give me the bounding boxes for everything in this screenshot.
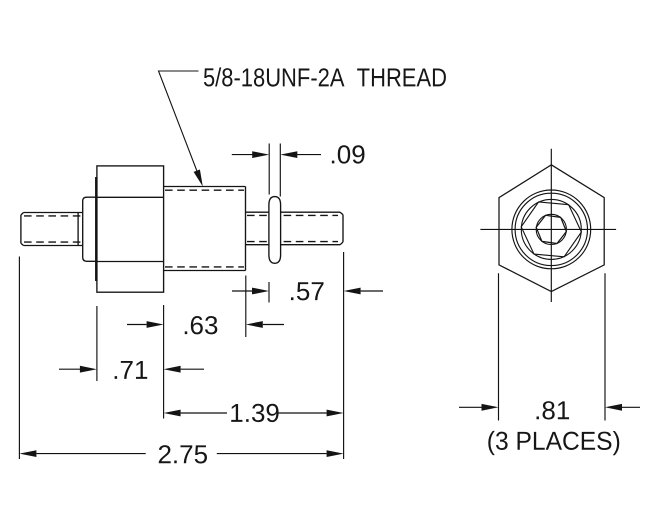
svg-text:.57: .57 — [289, 276, 325, 306]
dim line .71 right segment — [181, 368, 204, 370]
horizontal centerline — [480, 228, 616, 230]
dim line .09 right segment — [297, 154, 321, 156]
dim line .71 left segment — [59, 368, 80, 370]
stud minor hex — [536, 215, 566, 243]
arrow 2.75 right — [327, 450, 344, 457]
arrow 2.75 left — [19, 450, 36, 457]
dim line .57 left segment — [232, 290, 252, 292]
svg-text:(3 PLACES): (3 PLACES) — [487, 426, 621, 456]
dim line .09 left segment — [232, 154, 253, 156]
left stud — [21, 213, 83, 246]
svg-text:.71: .71 — [112, 355, 148, 385]
extension line hex-left (.71) — [96, 306, 98, 381]
dim line .63 right segment — [263, 324, 284, 326]
washer — [269, 197, 281, 264]
extension line hex right flat (.81) — [604, 273, 606, 420]
extension line hex left flat (.81) — [498, 273, 500, 420]
svg-text:1.39: 1.39 — [229, 398, 280, 428]
svg-text:.09: .09 — [330, 139, 366, 169]
leader arrowhead — [194, 170, 203, 187]
stud thread circle — [536, 214, 566, 244]
svg-text:2.75: 2.75 — [157, 439, 208, 469]
vertical centerline — [550, 149, 552, 302]
arrow 1.39 right — [327, 410, 344, 417]
extension line hex-right (.63/.71/1.39) — [163, 305, 165, 419]
dim line .63 left segment — [127, 324, 147, 326]
leader line for thread note — [159, 71, 199, 173]
dim line 1.39 right segment — [279, 412, 327, 414]
extension line cylinder-end (.63) — [245, 276, 247, 338]
extension line washer-left upper (.09) — [268, 144, 270, 195]
dim line .57 right tail — [361, 290, 383, 292]
flange — [83, 197, 97, 261]
right stud — [246, 212, 344, 245]
dim line 2.75 right segment — [217, 453, 327, 455]
arrow .09 right — [280, 151, 297, 158]
arrow 1.39 left — [164, 410, 181, 417]
extension line right stud end (.57/1.39/2.75) — [343, 252, 345, 459]
arrow .81 left — [482, 404, 499, 411]
cylinder thread dashed lines — [165, 190, 244, 267]
svg-text:.81: .81 — [534, 395, 570, 425]
left stud thread dashed lines — [24, 216, 82, 242]
arrow .81 right — [605, 404, 622, 411]
svg-text:5/8-18UNF-2A THREAD: 5/8-18UNF-2A THREAD — [203, 62, 447, 92]
thread minor circle (inner scallop) — [515, 193, 587, 265]
hex body outline (end view) — [499, 165, 604, 292]
threaded cylinder — [164, 187, 246, 271]
hex body thick left edge — [95, 177, 98, 281]
arrow .09 left — [252, 151, 269, 158]
arrow .71 left — [80, 366, 97, 373]
arrow .57 left — [252, 288, 269, 295]
chamfer circle — [521, 199, 581, 259]
dim line .81 left segment — [459, 406, 482, 408]
arrow .71 right — [164, 366, 181, 373]
extension line washer-left lower (.57) — [268, 282, 270, 303]
svg-text:.63: .63 — [182, 310, 218, 340]
inner hex flat facets — [521, 202, 581, 257]
hex body face lines — [97, 197, 164, 261]
hex body — [97, 166, 164, 292]
extension line left stud end (2.75) — [18, 257, 20, 460]
right stud thread dashed lines — [247, 215, 338, 241]
arrow .63 right — [246, 321, 263, 328]
dim line 1.39 left segment — [181, 412, 227, 414]
dim line 2.75 left segment — [36, 453, 145, 455]
END VIEW — [499, 165, 604, 292]
extension line washer-right upper (.09) — [279, 144, 281, 197]
arrow .63 left — [147, 321, 164, 328]
dim line .81 right segment — [622, 406, 640, 408]
arrow .57 right — [344, 288, 361, 295]
thread major circle (outer scallop) — [512, 190, 591, 269]
